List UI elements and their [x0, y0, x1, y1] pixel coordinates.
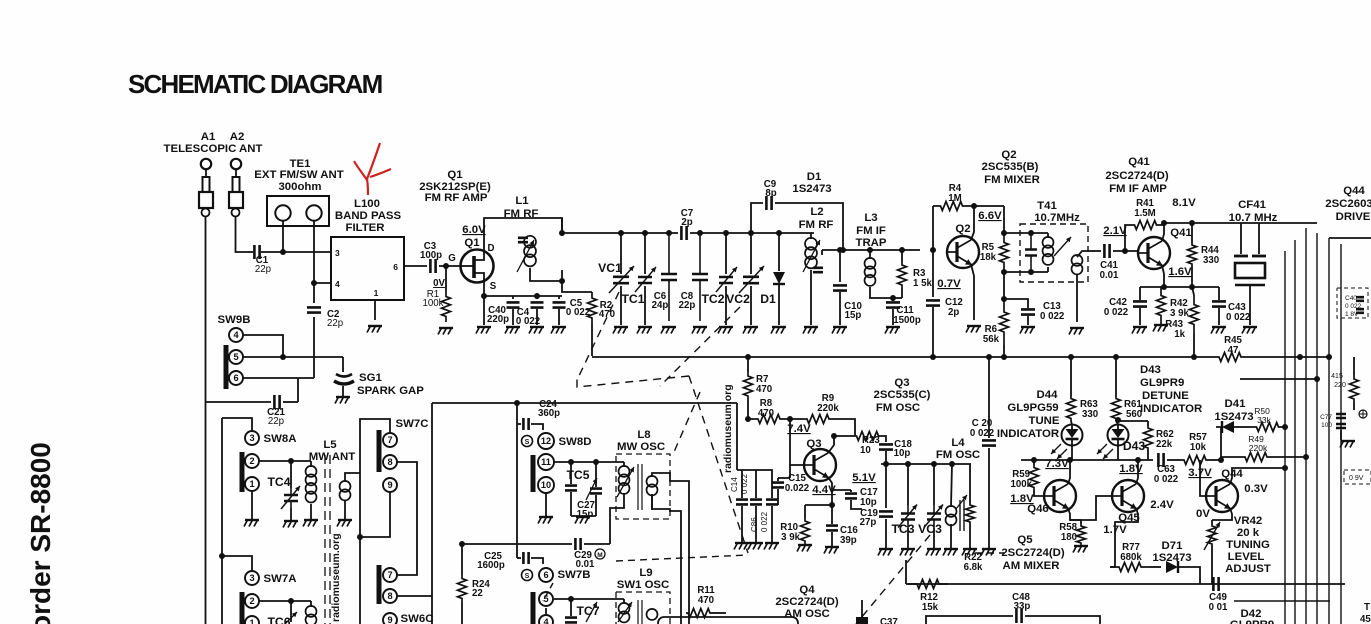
node d41 — [1218, 457, 1224, 463]
wire sw8d-11 row — [554, 461, 624, 463]
svg-text:10.7 MHz: 10.7 MHz — [1229, 212, 1278, 224]
svg-text:C86: C86 — [750, 517, 759, 532]
wire am rail — [906, 583, 1345, 585]
svg-text:Q4: Q4 — [799, 584, 815, 596]
wire sw7b-4 stub — [545, 608, 547, 614]
driver box edge — [1329, 237, 1371, 239]
transistor Q3 — [804, 449, 836, 481]
node TE1-C1 — [280, 249, 286, 255]
wire R62 top — [1116, 420, 1148, 422]
svg-text:220p: 220p — [487, 314, 509, 325]
svg-text:TRAP: TRAP — [855, 237, 886, 249]
resistor R24 — [461, 544, 463, 575]
wire C14 column — [736, 403, 738, 470]
svg-text:Q44: Q44 — [1343, 185, 1365, 197]
resistor R12 — [908, 580, 948, 589]
wire right link a — [1284, 426, 1286, 428]
antenna jack A2 — [231, 159, 241, 169]
wire Q45 emitter — [1115, 508, 1138, 540]
dashed gang link 1 — [660, 307, 740, 386]
transistor Q45 — [1112, 480, 1144, 512]
node Q2 base — [930, 247, 936, 253]
transformer L8 box — [616, 454, 670, 519]
wire r11 link — [712, 612, 726, 614]
node R6 bottom — [1001, 354, 1007, 360]
led D43 — [1116, 421, 1118, 424]
capacitor C40 — [512, 296, 514, 299]
wire A1 down — [205, 217, 207, 624]
svg-text:SG1: SG1 — [359, 372, 382, 384]
svg-text:6.6V: 6.6V — [978, 210, 1002, 222]
svg-text:FM OSC: FM OSC — [876, 402, 920, 414]
node l4 d — [949, 461, 955, 467]
ground C10 — [833, 326, 847, 328]
wire C21 riser — [297, 378, 299, 402]
switch SW7A contact 3 — [245, 571, 259, 585]
svg-text:330: 330 — [1203, 255, 1219, 266]
svg-text:0 022: 0 022 — [1226, 312, 1250, 323]
ground C42 — [1133, 326, 1147, 328]
svg-text:VR42: VR42 — [1234, 515, 1263, 527]
wire sw8a-1 down — [251, 491, 253, 519]
node Q41 collector rail — [1161, 220, 1167, 226]
svg-text:300ohm: 300ohm — [278, 181, 321, 193]
svg-text:C77: C77 — [1320, 414, 1332, 421]
circle plus right — [1359, 410, 1367, 418]
svg-text:SW9B: SW9B — [218, 314, 251, 326]
wire 8.1V rail — [1164, 222, 1317, 224]
wire fm rail — [562, 232, 678, 234]
wire emitter row — [1140, 286, 1219, 288]
switch SW7C contact 8 — [383, 455, 397, 469]
svg-text:SPARK GAP: SPARK GAP — [357, 385, 424, 397]
wire VR42 bottom — [1211, 552, 1213, 584]
capacitor C1 — [248, 251, 253, 253]
node tc6 — [288, 598, 294, 604]
svg-text:24p: 24p — [652, 300, 669, 311]
node emitter — [829, 502, 835, 508]
ground T41 — [1070, 327, 1084, 329]
resistor R2 — [588, 292, 597, 324]
capacitor C86 — [755, 470, 757, 498]
transistor Q44b — [1206, 480, 1238, 512]
svg-text:1 5k: 1 5k — [913, 278, 932, 289]
node T41 c1 — [1028, 230, 1034, 236]
svg-text:2SC535(B): 2SC535(B) — [982, 161, 1039, 173]
svg-text:A2: A2 — [230, 131, 245, 143]
switch SW8A bar — [240, 452, 245, 492]
svg-text:470: 470 — [756, 384, 772, 395]
svg-text:8: 8 — [387, 591, 392, 601]
switch SW8D contact 11 — [538, 454, 554, 470]
node R3 top — [899, 247, 905, 253]
svg-text:S: S — [490, 281, 497, 292]
capacitor C12 — [932, 250, 934, 297]
svg-text:AM MIXER: AM MIXER — [1003, 560, 1060, 572]
svg-text:Q3: Q3 — [894, 377, 909, 389]
svg-text:2p: 2p — [681, 217, 692, 228]
wire R41 base link — [1125, 225, 1131, 251]
svg-text:3.7V: 3.7V — [1188, 467, 1212, 479]
wire sw7c-7 — [360, 419, 390, 624]
switch SW9B wiper bar — [224, 345, 229, 389]
node fm rail — [642, 230, 648, 236]
trimmer TC2 — [725, 233, 727, 274]
svg-text:VC1: VC1 — [598, 261, 622, 275]
capacitor C31 — [570, 462, 572, 484]
ground C4 — [530, 326, 544, 328]
resistor R41 — [1131, 221, 1160, 230]
svg-text:0.3V: 0.3V — [1244, 483, 1268, 495]
svg-text:Q1: Q1 — [464, 237, 480, 249]
svg-text:0.7V: 0.7V — [937, 278, 961, 290]
switch SW7C contact 7 — [383, 433, 397, 447]
svg-text:22p: 22p — [327, 318, 343, 329]
transistor Q46 — [1044, 480, 1076, 512]
node rail d3 — [1297, 354, 1303, 360]
ground R1 — [439, 327, 453, 329]
svg-text:T41: T41 — [1037, 200, 1057, 212]
svg-text:Q2: Q2 — [1001, 149, 1016, 161]
ground C5 — [552, 326, 566, 328]
svg-text:22k: 22k — [1156, 439, 1173, 450]
svg-text:0.01: 0.01 — [1100, 270, 1119, 281]
ground L5 secondary — [338, 519, 352, 521]
svg-text:2p: 2p — [948, 307, 959, 318]
wire Q44 emitter — [1212, 508, 1232, 520]
svg-text:Q41: Q41 — [1128, 156, 1150, 168]
svg-text:C40: C40 — [1345, 295, 1357, 302]
svg-text:D71: D71 — [1162, 540, 1184, 552]
red hand-drawn arrow mark — [354, 143, 391, 195]
svg-text:5.1V: 5.1V — [852, 472, 876, 484]
wire L1 to R2 — [562, 270, 592, 292]
svg-text:8: 8 — [387, 457, 392, 467]
right bus wire 3 — [1305, 228, 1307, 624]
svg-text:DRIVE: DRIVE — [1336, 211, 1371, 223]
svg-text:9: 9 — [387, 480, 392, 490]
wire pin1 to ground — [374, 300, 376, 320]
svg-text:TC5: TC5 — [566, 468, 589, 482]
dashed gang corner — [577, 376, 689, 387]
ground sw8a-1 — [245, 519, 259, 521]
svg-text:Q46: Q46 — [1027, 503, 1049, 515]
svg-text:100k: 100k — [1010, 479, 1032, 490]
resistor R5 — [1000, 233, 1009, 272]
node L3 top — [867, 247, 873, 253]
inductor T41 primary — [1047, 233, 1049, 238]
ground TC2 — [719, 326, 733, 328]
svg-text:2SC2724(D): 2SC2724(D) — [775, 596, 839, 608]
switch SW8A contact 3 — [245, 431, 259, 445]
ground TC4 — [284, 520, 298, 522]
svg-text:ADJUST: ADJUST — [1225, 563, 1271, 575]
svg-text:6: 6 — [543, 570, 548, 580]
ground R58 — [1074, 545, 1088, 547]
ground C43 — [1212, 326, 1226, 328]
node R7 bottom — [745, 416, 751, 422]
dashed gang link vc1 — [577, 292, 619, 380]
ground Q2 emitter — [967, 325, 981, 327]
inductor L5 secondary — [344, 477, 346, 482]
svg-text:T: T — [1364, 602, 1370, 613]
wire TE1 left terminal down — [282, 221, 284, 252]
ground L4 — [944, 548, 958, 550]
svg-text:FM MIXER: FM MIXER — [984, 174, 1040, 186]
capacitor C63 — [1158, 453, 1163, 467]
ceramic filter CF41 — [1240, 223, 1242, 254]
ground R42 — [1154, 324, 1168, 326]
node R44 top — [1189, 220, 1195, 226]
wire W1 row — [1021, 459, 1153, 461]
svg-text:1.6V: 1.6V — [1168, 266, 1192, 278]
rail resistor R45 — [1216, 353, 1244, 362]
wire sw8a-2 row — [259, 460, 311, 462]
svg-text:10p: 10p — [860, 497, 877, 508]
node C12 bottom — [930, 354, 936, 360]
inductor L9 secondary — [647, 609, 658, 620]
capacitor C13 — [1004, 299, 1028, 308]
wire sw7a-3 — [222, 556, 252, 571]
capacitor C5 — [558, 296, 560, 299]
svg-text:3 9k: 3 9k — [1170, 308, 1189, 319]
capacitor C86b — [756, 470, 772, 498]
svg-text:D: D — [488, 243, 495, 254]
resistor R3 — [901, 250, 903, 262]
wire R57 to base node — [1210, 459, 1221, 461]
svg-text:TELESCOPIC ANT: TELESCOPIC ANT — [164, 143, 263, 155]
wire d41 up — [1216, 427, 1221, 460]
svg-text:GL9PR9: GL9PR9 — [1140, 377, 1184, 389]
svg-text:330: 330 — [1082, 409, 1098, 420]
node tc4 — [288, 458, 294, 464]
svg-text:470: 470 — [698, 595, 714, 606]
svg-text:22p: 22p — [679, 300, 696, 311]
svg-text:D1: D1 — [807, 171, 822, 183]
capacitor TC7 — [570, 599, 572, 616]
svg-text:L4: L4 — [951, 437, 965, 449]
switch SW6C bar — [377, 565, 382, 604]
switch S circle 8d — [522, 436, 533, 447]
svg-text:order SR-8800: order SR-8800 — [25, 442, 56, 624]
ground C13 — [1021, 326, 1035, 328]
svg-text:CF41: CF41 — [1238, 199, 1267, 211]
wire T41 bottom left — [1004, 271, 1048, 273]
svg-text:INDICATOR: INDICATOR — [997, 428, 1059, 440]
svg-text:1: 1 — [374, 288, 379, 298]
antenna jack A1 — [201, 159, 211, 169]
wire c24 column down — [516, 424, 518, 558]
svg-text:G: G — [448, 253, 456, 264]
svg-text:SW7A: SW7A — [264, 573, 297, 585]
resistor R7 — [747, 357, 749, 372]
svg-text:0V: 0V — [433, 278, 445, 289]
ground CF41 — [1243, 326, 1257, 328]
node C10 — [837, 247, 843, 253]
node L1 top rail — [559, 230, 565, 236]
node R43 bottom — [1191, 354, 1197, 360]
wire Q46 collector — [1068, 460, 1070, 484]
svg-text:22: 22 — [472, 588, 483, 599]
svg-text:2: 2 — [249, 596, 254, 606]
svg-text:SW8A: SW8A — [264, 433, 297, 445]
ground sw8d-10 — [539, 516, 553, 518]
ground C86b — [765, 542, 779, 544]
trimmer TC3 — [907, 464, 909, 505]
node ind1 — [1068, 354, 1074, 360]
ground C19 — [879, 548, 893, 550]
wire L8 secondary top out — [652, 473, 689, 624]
svg-text:1.7V: 1.7V — [1103, 524, 1127, 536]
resistor R42 — [1157, 287, 1166, 324]
svg-text:SW7B: SW7B — [558, 569, 591, 581]
switch SW7A bar — [240, 592, 245, 624]
svg-text:56k: 56k — [983, 334, 1000, 345]
svg-text:1S2473: 1S2473 — [1152, 552, 1191, 564]
wire sw5 — [243, 356, 343, 358]
svg-text:SW8D: SW8D — [559, 436, 592, 448]
svg-text:7: 7 — [387, 435, 392, 445]
inductor L9 primary — [623, 599, 625, 604]
node R44 bottom — [1189, 284, 1195, 290]
trimmer TC5 arrow — [586, 478, 597, 500]
resistor R61 — [1112, 396, 1121, 421]
wire R4 to collector — [970, 205, 1004, 207]
capacitor C29 — [575, 538, 580, 550]
wire T41 top left — [1004, 206, 1048, 233]
wire q46 base q45 link — [1070, 496, 1113, 520]
wire pole vertical — [221, 418, 223, 624]
dashed separator — [616, 555, 748, 561]
wire Q45 collector — [1136, 460, 1138, 484]
capacitor C18 — [880, 436, 886, 442]
svg-text:10k: 10k — [1190, 442, 1207, 453]
svg-text:2SC535(C): 2SC535(C) — [874, 389, 931, 401]
wire R9 to R23 — [846, 419, 855, 436]
svg-text:2.4V: 2.4V — [1150, 499, 1174, 511]
svg-text:1500p: 1500p — [893, 315, 921, 326]
svg-text:SW1 OSC: SW1 OSC — [617, 579, 670, 591]
svg-text:A1: A1 — [201, 131, 216, 143]
switch SW6C contact 7 — [383, 568, 397, 582]
switch SW6C contact 9 — [383, 613, 397, 624]
wire R5 R6 column — [1003, 272, 1005, 299]
svg-text:33k: 33k — [1257, 415, 1271, 425]
svg-text:10: 10 — [860, 445, 871, 456]
svg-text:7.3V: 7.3V — [1045, 458, 1069, 470]
svg-text:3: 3 — [249, 573, 254, 583]
terminal TE1 box — [267, 196, 329, 226]
right bus wire 2 — [1294, 240, 1296, 624]
svg-text:L9: L9 — [639, 567, 652, 579]
node tc5 a — [568, 459, 574, 465]
wire T41 sec top — [1077, 251, 1090, 257]
band pass filter L100 box — [331, 237, 404, 300]
node G — [443, 263, 449, 269]
wire Q3 base — [790, 419, 804, 465]
node fm rail — [776, 230, 782, 236]
ground L5 primary — [304, 519, 318, 521]
wire L8 pri bottom — [610, 494, 624, 544]
svg-text:1: 1 — [249, 479, 254, 489]
ground VC3 — [927, 548, 941, 550]
svg-text:20 k: 20 k — [1237, 527, 1260, 539]
svg-text:470: 470 — [758, 408, 774, 419]
switch SW7B bar — [531, 592, 536, 624]
svg-text:Q2: Q2 — [955, 223, 970, 235]
wire source down — [483, 281, 485, 325]
svg-text:Q1: Q1 — [447, 169, 463, 181]
right bus wire 1 — [1284, 251, 1286, 624]
wire sw7a-2 row — [259, 600, 311, 602]
right bus wire 4 — [1316, 233, 1318, 624]
resistor R58 — [1080, 520, 1082, 524]
capacitor C10 — [839, 250, 841, 282]
svg-text:L2: L2 — [810, 206, 823, 218]
svg-text:FM IF: FM IF — [856, 225, 886, 237]
svg-text:TC3: TC3 — [891, 522, 914, 536]
resistor R49 — [1221, 456, 1240, 458]
svg-text:GL9PG59: GL9PG59 — [1007, 402, 1058, 414]
vr VR42 — [1211, 520, 1213, 524]
svg-text:1M: 1M — [948, 193, 961, 204]
ground C86 — [749, 542, 763, 544]
svg-text:18k: 18k — [980, 252, 997, 263]
svg-text:L8: L8 — [637, 429, 650, 441]
wire Q3 emitter — [828, 477, 832, 505]
resistor R63 — [1067, 396, 1076, 421]
capacitor C37 blob — [856, 617, 868, 624]
varcap VC2 — [750, 233, 752, 274]
svg-text:4: 4 — [233, 330, 239, 340]
inductor L8 secondary — [647, 476, 658, 487]
ground pin1 — [368, 325, 382, 327]
svg-text:3: 3 — [335, 248, 340, 258]
svg-text:M: M — [597, 552, 602, 559]
svg-text:0V: 0V — [1196, 508, 1210, 520]
capacitor C24 — [516, 403, 518, 424]
ground Q1 source — [477, 326, 491, 328]
svg-text:2SC2724(D): 2SC2724(D) — [1001, 547, 1065, 559]
inductor T41 secondary — [1072, 255, 1083, 266]
svg-text:0 022: 0 022 — [1040, 311, 1064, 322]
capacitor C25 — [517, 557, 521, 559]
resistor R10 — [805, 504, 832, 506]
wire Q44 base — [1200, 460, 1207, 496]
switch S circle 7b — [522, 570, 533, 581]
cap marks right — [1356, 297, 1364, 301]
svg-text:LEVEL: LEVEL — [1228, 551, 1265, 563]
wire sw7b-5 row — [554, 598, 624, 600]
svg-text:1S2473: 1S2473 — [792, 183, 831, 195]
wire source node rail — [484, 295, 562, 297]
transistor Q2 — [947, 236, 979, 268]
diode D1 shunt — [778, 233, 780, 271]
svg-text:AM OSC: AM OSC — [784, 608, 830, 620]
diode D41 — [1222, 421, 1234, 433]
svg-text:11: 11 — [541, 457, 551, 467]
svg-text:1: 1 — [249, 618, 254, 624]
node fm rail — [723, 230, 729, 236]
capacitor C20 — [988, 357, 990, 438]
svg-text:1600p: 1600p — [477, 560, 505, 571]
dash box right — [1337, 288, 1368, 318]
svg-text:5: 5 — [233, 352, 238, 362]
node fm rail — [748, 230, 754, 236]
svg-text:0 9V: 0 9V — [1349, 475, 1364, 482]
switch SW8A contact 1 — [245, 477, 259, 491]
node tc5 b — [593, 459, 599, 465]
